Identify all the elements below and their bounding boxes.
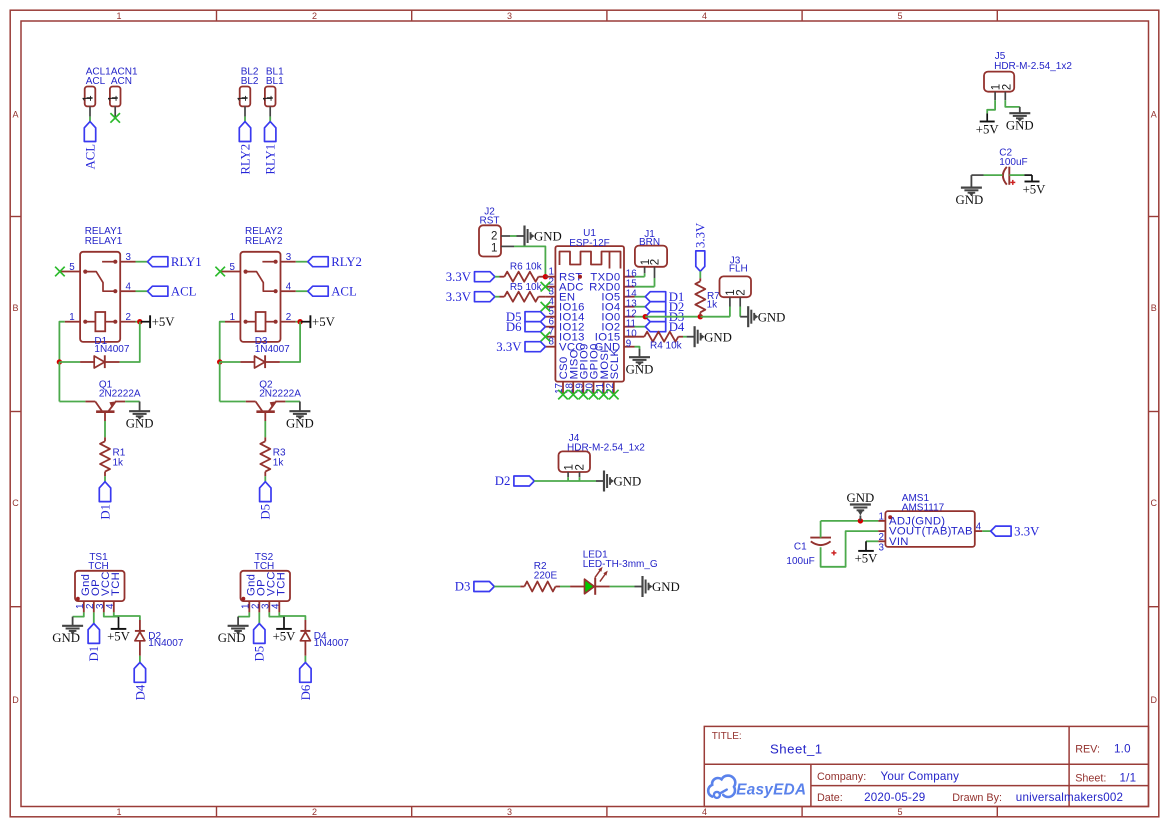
svg-text:2: 2 [286, 312, 291, 323]
svg-text:5: 5 [897, 807, 902, 817]
no-connect X [589, 390, 599, 400]
connector J1 BRN [635, 229, 667, 278]
net flag D1 [87, 624, 101, 662]
svg-text:LED-TH-3mm_G: LED-TH-3mm_G [583, 559, 658, 570]
svg-text:4: 4 [702, 807, 707, 817]
wire [635, 278, 655, 287]
wire [534, 477, 568, 481]
wire [821, 531, 879, 567]
svg-text:GND: GND [52, 631, 80, 645]
transistor Q2 2N2222A [246, 380, 302, 422]
svg-text:B: B [12, 303, 18, 313]
svg-text:SCLK: SCLK [609, 349, 621, 380]
wire [514, 246, 545, 276]
junction [643, 314, 648, 319]
connector J3 FLH [720, 255, 752, 306]
svg-text:100uF: 100uF [999, 157, 1027, 168]
svg-text:2: 2 [312, 11, 317, 21]
wire [269, 612, 284, 616]
resistor R1 1k [100, 437, 126, 476]
svg-text:GND: GND [218, 631, 246, 645]
IC U1 ESP-12F [545, 228, 637, 394]
svg-text:C: C [12, 498, 19, 508]
svg-text:1N4007: 1N4007 [255, 344, 290, 355]
svg-text:Company:: Company: [817, 771, 866, 783]
ground [126, 402, 154, 431]
wire [820, 521, 822, 538]
resistor R3 1k [260, 437, 286, 476]
wire [610, 586, 635, 588]
ground [626, 349, 654, 377]
svg-text:+5V: +5V [312, 315, 336, 329]
svg-text:B: B [1151, 303, 1157, 313]
svg-text:1: 1 [990, 84, 1002, 90]
junction [57, 359, 62, 364]
net flag D1 [645, 290, 684, 304]
svg-text:1: 1 [82, 95, 94, 101]
net flag D3 [455, 580, 495, 594]
svg-text:RELAY2: RELAY2 [245, 236, 283, 247]
svg-text:+5V: +5V [1023, 183, 1047, 197]
net flag RLY2 [238, 122, 252, 175]
wire [264, 476, 266, 481]
wire [220, 322, 225, 362]
svg-text:+5V: +5V [855, 552, 879, 566]
connector ACL1 [82, 67, 111, 117]
svg-text:RELAY1: RELAY1 [85, 236, 123, 247]
svg-text:TAB: TAB [951, 526, 973, 538]
svg-text:3.3V: 3.3V [694, 222, 708, 248]
wire [495, 276, 500, 278]
svg-text:Sheet:: Sheet: [1075, 772, 1106, 784]
connector BL1 [262, 67, 284, 117]
svg-text:GND: GND [534, 230, 562, 244]
no-connect X on RELAY1 pin 5 [55, 267, 65, 277]
svg-text:R6 10k: R6 10k [510, 262, 543, 273]
svg-text:1N4007: 1N4007 [148, 638, 183, 649]
svg-text:4: 4 [976, 522, 982, 533]
svg-text:REV:: REV: [1075, 743, 1100, 755]
net flag ACL [83, 122, 97, 170]
svg-text:3.3V: 3.3V [446, 290, 472, 304]
ground [847, 491, 875, 521]
svg-text:GND: GND [652, 580, 680, 594]
wire [635, 326, 646, 328]
wire [560, 586, 570, 588]
net flag D5 [506, 310, 546, 324]
power flag +5V [273, 617, 297, 644]
net flag 3.3V [496, 340, 545, 354]
diode D1 1N4007 [59, 336, 129, 368]
svg-text:RLY1: RLY1 [264, 144, 278, 175]
svg-text:AMS1117: AMS1117 [902, 502, 945, 513]
wire [635, 316, 646, 318]
svg-text:+5V: +5V [152, 315, 176, 329]
ground [956, 175, 984, 207]
wire [739, 307, 741, 317]
svg-text:5: 5 [897, 11, 902, 21]
wire [495, 296, 500, 298]
wire [568, 477, 579, 481]
junction [698, 314, 703, 319]
svg-text:Date:: Date: [817, 792, 843, 804]
svg-text:HDR-M-2.54_1x2: HDR-M-2.54_1x2 [994, 61, 1072, 72]
net flag 3.3V [446, 270, 495, 284]
wire [136, 321, 140, 323]
svg-text:1: 1 [116, 807, 121, 817]
svg-text:3: 3 [879, 542, 885, 553]
svg-text:C: C [1150, 498, 1157, 508]
no-connect X [568, 390, 578, 400]
svg-text:1: 1 [491, 242, 497, 254]
svg-text:D5: D5 [259, 504, 273, 520]
connector J4 HDR-M-2.54_1x2 [559, 433, 646, 477]
svg-text:1/1: 1/1 [1120, 771, 1137, 784]
svg-text:5: 5 [69, 262, 75, 273]
svg-text:220E: 220E [534, 571, 558, 582]
wire [971, 174, 983, 176]
svg-text:GND: GND [847, 491, 875, 505]
svg-text:Your Company: Your Company [881, 770, 960, 783]
svg-text:ESP-12F: ESP-12F [569, 238, 610, 249]
transistor Q1 2N2222A [85, 380, 141, 422]
svg-text:1N4007: 1N4007 [314, 638, 349, 649]
svg-text:8: 8 [549, 337, 555, 348]
svg-text:BL1: BL1 [266, 76, 284, 87]
svg-text:RLY1: RLY1 [171, 255, 202, 269]
ground [218, 617, 249, 646]
diode D4 1N4007 [300, 620, 349, 656]
wire [982, 530, 990, 532]
svg-text:HDR-M-2.54_1x2: HDR-M-2.54_1x2 [567, 442, 645, 453]
no-connect X [579, 390, 589, 400]
svg-text:ACL: ACL [171, 285, 197, 299]
svg-text:ACN: ACN [111, 76, 132, 87]
net flag RLY2 [308, 255, 362, 269]
svg-text:2: 2 [1002, 84, 1014, 90]
connector BL2 [237, 67, 259, 117]
svg-text:GND: GND [704, 330, 732, 344]
resistor R2 220E [520, 561, 560, 591]
net flag D4 [133, 662, 147, 700]
svg-text:3: 3 [507, 11, 512, 21]
connector J2 RST [479, 207, 514, 257]
diode D2 1N4007 [135, 620, 184, 656]
svg-text:3.3V: 3.3V [496, 340, 522, 354]
wire [699, 271, 701, 278]
svg-text:RLY2: RLY2 [238, 144, 252, 175]
resistor R7 1k [695, 278, 720, 316]
svg-text:ACL: ACL [86, 76, 106, 87]
wire [296, 290, 308, 292]
svg-text:2N2222A: 2N2222A [99, 389, 141, 400]
wire [238, 612, 249, 616]
wire [114, 612, 140, 620]
svg-text:4: 4 [702, 11, 707, 21]
junction [217, 359, 222, 364]
wire [494, 586, 520, 588]
svg-text:+5V: +5V [107, 630, 131, 644]
ground [635, 576, 680, 597]
ground [687, 326, 732, 347]
svg-text:3: 3 [126, 252, 132, 263]
wire [120, 322, 140, 362]
wire [635, 296, 646, 298]
wire [269, 117, 271, 122]
wire [984, 174, 1003, 176]
wire [987, 100, 995, 113]
regulator AMS1 AMS1117 [878, 493, 982, 554]
svg-text:2: 2 [735, 289, 747, 295]
svg-text:GND: GND [956, 193, 984, 207]
svg-text:TITLE:: TITLE: [712, 731, 742, 742]
no-connect X [541, 302, 551, 312]
capacitor C1 100uF [786, 538, 836, 567]
svg-text:RST: RST [480, 216, 500, 227]
wire [821, 520, 879, 522]
svg-text:2: 2 [575, 464, 587, 470]
net flag D4 [645, 320, 685, 334]
svg-text:GND: GND [286, 417, 314, 431]
net flag 3.3V [446, 290, 495, 304]
svg-text:FLH: FLH [729, 263, 748, 274]
svg-text:3.3V: 3.3V [1014, 524, 1040, 538]
svg-text:VIN: VIN [889, 536, 909, 548]
svg-text:Sheet_1: Sheet_1 [770, 742, 823, 757]
capacitor C2 100uF [999, 147, 1027, 185]
net flag 3.3V [694, 222, 708, 271]
svg-text:1k: 1k [707, 300, 719, 311]
svg-text:D5: D5 [253, 646, 267, 662]
wire [264, 421, 266, 437]
svg-text:5: 5 [230, 262, 236, 273]
wire [635, 273, 645, 276]
IC TS2 TCH [241, 552, 291, 613]
connector J5 HDR-M-2.54_1x2 [984, 51, 1072, 100]
net flag D6 [299, 662, 313, 700]
wire [285, 401, 300, 403]
wire [296, 261, 308, 263]
ground [52, 617, 83, 646]
svg-text:D: D [12, 695, 19, 705]
wire [59, 322, 64, 362]
svg-text:100uF: 100uF [786, 556, 814, 567]
svg-text:3.3V: 3.3V [446, 270, 472, 284]
power flag +5V [1023, 175, 1047, 197]
svg-text:2: 2 [491, 231, 497, 243]
svg-text:GND: GND [758, 310, 786, 324]
svg-text:1k: 1k [273, 458, 285, 469]
wire [136, 290, 148, 292]
ground [286, 402, 314, 431]
net flag RLY1 [264, 122, 278, 175]
svg-text:D2: D2 [495, 474, 511, 488]
svg-text:1: 1 [262, 95, 274, 101]
svg-text:1N4007: 1N4007 [94, 344, 129, 355]
net flag D2 [495, 474, 535, 488]
resistor R5 10k [500, 282, 546, 302]
svg-text:universalmakers002: universalmakers002 [1016, 791, 1123, 804]
net flag D3 [645, 310, 684, 324]
wire [683, 336, 687, 338]
svg-text:9: 9 [626, 338, 631, 349]
no-connect X [609, 390, 619, 400]
net flag D5 [259, 482, 273, 520]
svg-text:D4: D4 [669, 320, 685, 334]
net flag ACL [148, 285, 197, 299]
net flag D1 [98, 482, 112, 520]
wire [104, 476, 106, 481]
svg-text:ACL: ACL [331, 285, 357, 299]
wire [136, 261, 148, 263]
svg-text:4: 4 [271, 603, 282, 609]
wire [244, 117, 246, 122]
svg-text:D6: D6 [506, 320, 522, 334]
power flag +5V [107, 617, 131, 644]
svg-text:Drawn By:: Drawn By: [952, 792, 1002, 804]
svg-text:1: 1 [563, 464, 575, 470]
junction [858, 518, 863, 523]
svg-text:GND: GND [626, 363, 654, 377]
svg-text:TCH: TCH [110, 572, 122, 596]
svg-text:BL2: BL2 [241, 76, 259, 87]
svg-text:TCH: TCH [88, 561, 109, 572]
svg-text:1: 1 [237, 95, 249, 101]
svg-text:D3: D3 [455, 580, 471, 594]
svg-text:2: 2 [126, 312, 131, 323]
svg-text:1: 1 [69, 312, 74, 323]
svg-text:D1: D1 [87, 646, 101, 662]
EasyEDA logo [708, 776, 806, 799]
relay RELAY2 [220, 226, 295, 342]
svg-text:D: D [1150, 695, 1157, 705]
junction [543, 274, 548, 279]
wire [700, 316, 730, 318]
resistor R6 10k [500, 262, 546, 282]
junction [297, 319, 302, 324]
power flag +5V [141, 315, 175, 329]
title block [704, 726, 1148, 806]
no-connect X [541, 282, 551, 292]
net flag 3.3V [991, 524, 1040, 538]
svg-text:1k: 1k [113, 458, 125, 469]
wire [1005, 100, 1020, 107]
IC TS1 TCH [75, 552, 125, 613]
svg-text:ACL: ACL [83, 144, 97, 170]
svg-text:1.0: 1.0 [1114, 743, 1131, 756]
no-connect X on ACN1 [110, 113, 120, 123]
power flag +5V [855, 541, 879, 565]
svg-text:3: 3 [507, 807, 512, 817]
wire [304, 656, 306, 663]
svg-text:D6: D6 [299, 684, 313, 700]
svg-text:+5V: +5V [976, 122, 1000, 136]
diode D3 1N4007 [220, 336, 290, 368]
no-connect X [558, 390, 568, 400]
svg-text:GND: GND [126, 417, 154, 431]
svg-text:TCH: TCH [276, 572, 288, 596]
net flag D2 [645, 300, 684, 314]
wire [89, 117, 91, 122]
wire [580, 480, 597, 482]
svg-text:2: 2 [312, 807, 317, 817]
svg-text:BRN: BRN [639, 237, 660, 248]
svg-text:EasyEDA: EasyEDA [736, 781, 806, 798]
svg-text:4: 4 [126, 282, 132, 293]
net flag D6 [506, 320, 546, 334]
svg-text:GND: GND [1006, 119, 1034, 133]
wire [59, 362, 85, 402]
svg-text:A: A [12, 110, 18, 120]
net flag RLY1 [148, 255, 202, 269]
ground [740, 306, 785, 327]
net flag ACL [308, 285, 357, 299]
wire [258, 612, 260, 623]
svg-text:TCH: TCH [254, 561, 275, 572]
connector ACN1 [107, 67, 138, 117]
wire [866, 540, 878, 542]
no-connect X on RELAY2 pin 5 [215, 267, 225, 277]
wire [729, 307, 731, 317]
net flag D5 [253, 624, 267, 662]
LED LED1 LED-TH-3mm_G [570, 549, 658, 594]
wire [510, 235, 517, 237]
no-connect X [541, 332, 551, 342]
svg-text:R4 10k: R4 10k [650, 340, 683, 351]
wire [635, 347, 640, 349]
wire [1009, 174, 1024, 176]
power flag +5V [976, 113, 1000, 136]
svg-text:1: 1 [879, 512, 884, 523]
svg-text:RLY2: RLY2 [331, 255, 362, 269]
wire [93, 612, 95, 623]
wire [279, 612, 305, 620]
svg-text:2N2222A: 2N2222A [259, 389, 301, 400]
wire [635, 306, 646, 308]
wire [104, 421, 106, 437]
wire [73, 612, 84, 616]
svg-text:A: A [1151, 110, 1157, 120]
resistor R4 10k [624, 332, 683, 352]
wire [296, 321, 300, 323]
ground [596, 471, 641, 492]
svg-text:4: 4 [105, 603, 116, 609]
svg-text:1: 1 [116, 11, 121, 21]
svg-text:3: 3 [286, 252, 292, 263]
svg-text:+5V: +5V [273, 630, 297, 644]
wire [139, 656, 141, 663]
svg-text:2020-05-29: 2020-05-29 [864, 791, 925, 804]
wire [220, 362, 246, 402]
svg-text:R5 10k: R5 10k [510, 282, 543, 293]
svg-text:D1: D1 [98, 504, 112, 520]
ground [1006, 107, 1034, 133]
svg-text:D4: D4 [133, 684, 147, 700]
svg-text:1: 1 [230, 312, 235, 323]
svg-text:2: 2 [650, 259, 662, 265]
wire [645, 316, 700, 318]
svg-text:1: 1 [107, 95, 119, 101]
junction [137, 319, 142, 324]
relay RELAY1 [60, 226, 136, 342]
wire [104, 612, 119, 616]
power flag +5V [301, 315, 335, 329]
no-connect X [599, 390, 609, 400]
svg-text:C1: C1 [794, 541, 807, 552]
svg-text:4: 4 [286, 282, 292, 293]
wire [125, 401, 140, 403]
wire [280, 322, 300, 362]
